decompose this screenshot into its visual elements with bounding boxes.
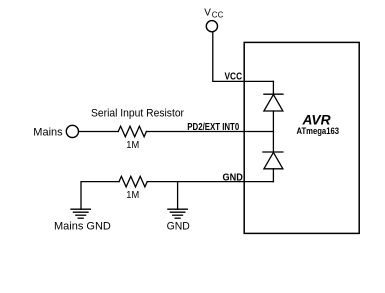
wire GND pin rail down to ground [177, 182, 179, 210]
connector J1 Mains [33, 125, 78, 138]
svg-text:Mains GND: Mains GND [54, 221, 111, 233]
svg-text:GND: GND [167, 221, 190, 233]
diode D1 clamp PD2 to VCC [264, 94, 283, 111]
diode D2 clamp GND to PD2 [263, 152, 283, 169]
svg-text:CC: CC [212, 11, 224, 20]
svg-text:Mains: Mains [33, 127, 63, 139]
resistor R2 1M [119, 176, 147, 187]
wire Mains GND up and right to R2 [81, 182, 119, 210]
wire R1 to PD2 pin [146, 131, 273, 133]
ground Mains GND symbol [71, 209, 90, 218]
IC U1 AVR ATmega163 body [244, 42, 359, 233]
resistor R1 1M serial input [118, 126, 146, 137]
ground GND symbol [168, 209, 187, 218]
svg-text:V: V [204, 8, 211, 19]
wire Mains connector to R1 [79, 131, 119, 133]
wire VCC supply down and right to chip [213, 32, 274, 82]
svg-text:1M: 1M [126, 140, 139, 151]
wire R2 to GND pin [147, 181, 273, 183]
wire VCC rail into diode D1 cathode [272, 81, 274, 94]
wire D1 anode to PD2 node [272, 111, 274, 132]
svg-text:ATmega163: ATmega163 [297, 126, 340, 136]
power VCC symbol [204, 8, 223, 32]
wire D2 anode to GND rail [272, 169, 274, 182]
svg-text:VCC: VCC [225, 71, 243, 82]
svg-text:PD2/EXT INT0: PD2/EXT INT0 [187, 121, 239, 133]
wire PD2 node to diode D2 cathode [272, 132, 274, 153]
svg-text:1M: 1M [126, 190, 139, 201]
svg-text:Serial Input Resistor: Serial Input Resistor [91, 107, 184, 119]
svg-text:GND: GND [223, 172, 244, 184]
